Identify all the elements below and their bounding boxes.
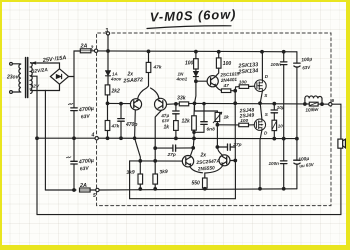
junction trimpot lower gate tap <box>216 124 219 127</box>
svg-text:63V: 63V <box>80 166 90 173</box>
wire trimpot feed <box>195 103 218 112</box>
svg-text:63V: 63V <box>302 65 311 71</box>
svg-text:63V: 63V <box>81 114 91 121</box>
svg-text:23ov: 23ov <box>6 75 20 81</box>
svg-text:47k: 47k <box>153 65 162 71</box>
wire mid rail inside board <box>98 137 297 139</box>
junction first base node <box>106 102 109 105</box>
svg-text:2N5550: 2N5550 <box>197 165 216 172</box>
svg-text:4: 4 <box>91 133 95 139</box>
resistor R16 10/6w parallel <box>303 102 328 114</box>
resistor R12 100 lower gate <box>217 118 254 127</box>
wire Q2 base to feedback node <box>167 103 175 105</box>
trimpot P1 1k <box>213 112 229 125</box>
wire base node to Q1 <box>108 102 131 104</box>
wire gate node down to output line <box>234 91 236 104</box>
junction negative feed <box>73 189 76 192</box>
junction centre tap to mid rail <box>36 137 39 140</box>
label 2x 2SA872 <box>122 72 143 85</box>
svg-text:2x: 2x <box>200 153 207 159</box>
capacitor C3 470p <box>118 102 138 139</box>
svg-text:2k2: 2k2 <box>111 89 121 95</box>
inductor L1 <box>304 96 324 105</box>
svg-text:2SJ49: 2SJ49 <box>239 113 255 120</box>
wire positive rail <box>98 50 297 53</box>
wire bridge bottom vertex join <box>45 84 59 90</box>
transformer T1 primary winding <box>19 64 21 92</box>
wire bias base <box>196 80 207 82</box>
transistor Q5 2SC2547 right <box>219 155 230 166</box>
wire mid rail <box>37 137 94 139</box>
resistor R11 100 upper gate <box>235 80 255 91</box>
wire Q1 collector down <box>135 110 141 161</box>
svg-text:uu 63V: uu 63V <box>299 162 315 169</box>
svg-text:2SA872: 2SA872 <box>122 77 143 84</box>
mosfet U1 2SK133 <box>255 74 269 98</box>
resistor R6 1k <box>164 114 179 140</box>
resistor R10 47 emitter <box>215 83 233 93</box>
transformer T1 secondary winding <box>31 63 33 94</box>
transistor Q2 2SA872 right <box>155 98 167 110</box>
resistor R13 550 <box>192 178 208 190</box>
svg-text:100: 100 <box>223 61 232 67</box>
resistor R9 100 bias collector <box>216 50 232 76</box>
resistor R15 10 zobel <box>272 113 283 140</box>
wire Q4 Q5 emitters join <box>190 165 223 178</box>
junction feedback node <box>175 103 178 106</box>
svg-text:S: S <box>265 112 269 117</box>
wire Q4 base <box>181 160 183 162</box>
capacitor C12 100u 63V lower <box>294 139 315 189</box>
wire node 3 column <box>107 35 109 71</box>
svg-text:2A: 2A <box>80 44 88 50</box>
svg-text:27p: 27p <box>167 152 176 158</box>
capacitor C7 27p right <box>217 142 241 150</box>
wire node 6 to speaker <box>332 104 341 139</box>
wire fuse to node 5 <box>90 189 96 191</box>
wire Q1 Q2 emitters join <box>138 73 160 100</box>
capacitor C9 100n upper <box>271 51 287 140</box>
capacitor C11 100n lower <box>269 139 287 191</box>
svg-text:4700µ: 4700µ <box>78 106 95 114</box>
svg-text:100µ: 100µ <box>301 56 313 63</box>
junction node3 column on positive rail <box>107 50 110 53</box>
svg-text:4oov: 4oov <box>110 77 122 82</box>
svg-text:D: D <box>264 131 268 136</box>
capacitor C6 6n8 <box>194 102 215 132</box>
capacitor C2 4700u 63V <box>66 138 94 190</box>
wire bridge + output up to fuse <box>69 51 80 77</box>
label 2SJ48 2SJ49 <box>239 107 255 119</box>
wire U2 source to output line <box>260 103 262 119</box>
wire second stage base line <box>130 160 183 162</box>
junction 27p right tap <box>192 147 195 150</box>
node 2 <box>90 46 98 53</box>
junction Q2 collector base line crossing <box>154 160 157 163</box>
svg-text:V-M0S (6ow): V-M0S (6ow) <box>150 6 237 24</box>
wire U1 source to output line <box>260 91 262 103</box>
svg-text:2A: 2A <box>79 183 87 189</box>
wire secondary centre tap down <box>31 76 37 214</box>
svg-text:1k: 1k <box>224 115 230 121</box>
wire negative feed to fuse <box>45 189 76 191</box>
capacitor C10 100u 63V upper <box>294 52 313 140</box>
svg-text:2N4401: 2N4401 <box>220 77 238 83</box>
wire routing loop left <box>130 161 236 199</box>
svg-text:100n: 100n <box>269 161 280 166</box>
label 2SK133 2SK134 <box>237 62 258 75</box>
svg-text:10/6w: 10/6w <box>305 107 319 114</box>
title V-MOS (60W) <box>147 6 237 28</box>
svg-text:100: 100 <box>239 80 247 86</box>
svg-text:2x: 2x <box>127 72 134 78</box>
svg-text:4700µ: 4700µ <box>78 158 95 166</box>
capacitor C4 27p left <box>155 145 193 158</box>
svg-text:2SK134: 2SK134 <box>237 68 258 75</box>
svg-text:5: 5 <box>93 193 96 199</box>
resistor R5 3k9 <box>153 169 168 190</box>
junction Q5 collector 27p <box>216 146 219 149</box>
wire Q2 collector down <box>155 110 161 174</box>
svg-text:550: 550 <box>192 181 201 187</box>
dashed board outline <box>97 33 332 206</box>
node 5 <box>93 188 99 199</box>
svg-text:47k: 47k <box>111 124 120 129</box>
node 6 <box>329 98 335 106</box>
junction bias base node <box>195 80 198 83</box>
resistor R8 100 bias diode feed <box>185 50 198 69</box>
svg-text:D: D <box>265 74 269 79</box>
wire 12k column down to Q4 collector <box>191 138 195 155</box>
transformer T1 core <box>26 58 28 98</box>
wire U2 drain to negative rail <box>260 130 262 189</box>
transistor Q3 bias 2SC1815 <box>207 71 240 87</box>
junction gate drive node <box>234 89 237 92</box>
capacitor C5 47u 63V <box>160 104 179 124</box>
svg-text:27p: 27p <box>232 142 241 148</box>
svg-text:6: 6 <box>332 98 335 103</box>
transistor Q4 2SC2547 left <box>182 156 193 167</box>
wire bottom return <box>37 148 341 214</box>
wire secondary top tap to bridge <box>31 62 60 69</box>
node 4 <box>91 133 99 140</box>
svg-text:4oo1: 4oo1 <box>176 77 188 82</box>
wire U1 drain to positive rail <box>261 52 262 80</box>
transistor Q1 2SA872 left <box>130 99 141 110</box>
svg-text:2SC2547A: 2SC2547A <box>195 158 220 166</box>
label 2x 2SC2547A 2N5550 <box>195 153 220 173</box>
resistor R1 2k2 <box>105 76 120 102</box>
fuse F2 2A <box>79 183 90 192</box>
resistor R7 33k feedback <box>176 95 194 106</box>
junction Q2 collector 27p tap <box>154 147 157 150</box>
svg-text:32V/2A: 32V/2A <box>32 67 49 75</box>
svg-text:32V: 32V <box>31 84 40 90</box>
svg-text:6n8: 6n8 <box>207 127 216 133</box>
capacitor C1 4700u 63V <box>68 77 94 139</box>
speaker LS1 <box>338 139 346 148</box>
resistor R4 3k9 <box>126 161 142 190</box>
svg-text:12k: 12k <box>182 119 191 125</box>
diode D2 1N4001 <box>176 69 199 82</box>
bridge rectifier <box>50 69 68 84</box>
junction output dots <box>193 102 275 105</box>
wire Q5 collector up to trimpot column <box>217 125 222 156</box>
resistor column R14 12k <box>182 103 197 139</box>
resistor R2 47k <box>105 103 119 139</box>
svg-text:63V: 63V <box>162 118 171 124</box>
svg-text:S: S <box>264 93 268 98</box>
junction caps on centre rail <box>73 137 76 140</box>
transformer T1 primary terminals <box>10 62 20 93</box>
capacitor C8 10n zobel <box>271 104 285 113</box>
svg-text:2: 2 <box>90 46 94 52</box>
resistor R3 47k emitter <box>146 50 162 72</box>
wire negative rail <box>99 189 297 190</box>
fuse F1 2A <box>80 44 91 53</box>
svg-text:47: 47 <box>223 83 230 89</box>
svg-text:100: 100 <box>185 60 194 66</box>
wire output feedback column down <box>234 103 236 161</box>
svg-text:3k9: 3k9 <box>159 169 168 176</box>
node 3 <box>105 28 109 35</box>
wire secondary bottom tap down <box>31 91 46 191</box>
mosfet U2 2SJ48 <box>254 112 269 136</box>
diode D1 1A 400v <box>106 71 122 82</box>
svg-text:1k: 1k <box>164 125 170 131</box>
svg-text:33k: 33k <box>177 95 187 101</box>
svg-text:3k9: 3k9 <box>126 169 135 176</box>
svg-text:100n: 100n <box>271 62 282 67</box>
wire fuse to node 2 <box>91 50 95 52</box>
wire bias base column down to output node <box>195 81 196 103</box>
svg-text:10: 10 <box>278 124 283 129</box>
wire output line <box>195 102 304 105</box>
wire Q5 base to feedback column <box>230 160 235 162</box>
